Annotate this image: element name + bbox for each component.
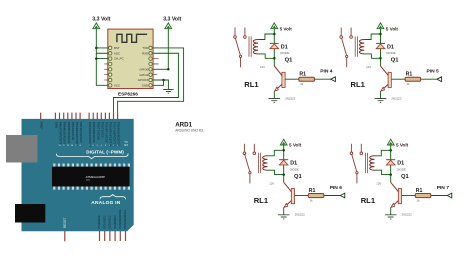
svg-text:AREF: AREF bbox=[40, 122, 44, 130]
svg-text:5: 5 bbox=[97, 145, 98, 147]
svg-text:VCC: VCC bbox=[114, 83, 120, 87]
svg-text:PB2/SS/OC1B: PB2/SS/OC1B bbox=[71, 122, 75, 140]
svg-text:GND: GND bbox=[142, 83, 148, 87]
svg-text:PD5/T1/OC0B: PD5/T1/OC0B bbox=[96, 122, 100, 140]
svg-text:PD4/T0/XCK: PD4/T0/XCK bbox=[100, 122, 104, 138]
svg-text:0: 0 bbox=[117, 145, 118, 147]
svg-text:GPIO0: GPIO0 bbox=[139, 67, 148, 71]
svg-text:8: 8 bbox=[80, 145, 81, 147]
svg-text:PC2/ADC2: PC2/ADC2 bbox=[108, 215, 112, 229]
svg-text:PIN 5: PIN 5 bbox=[427, 69, 440, 75]
svg-text:PD2/INT0/PCINT18: PD2/INT0/PCINT18 bbox=[108, 122, 112, 147]
svg-text:9: 9 bbox=[75, 145, 76, 147]
svg-text:PIN 7: PIN 7 bbox=[437, 185, 450, 191]
svg-text:10: 10 bbox=[71, 145, 73, 147]
svg-text:PB1/OC1A/PCINT1: PB1/OC1A/PCINT1 bbox=[75, 122, 79, 147]
svg-text:2: 2 bbox=[109, 145, 110, 147]
svg-text:3: 3 bbox=[105, 145, 106, 147]
svg-text:RESET: RESET bbox=[63, 217, 67, 228]
svg-text:3,3 Volt: 3,3 Volt bbox=[163, 17, 181, 23]
svg-text:PD0/RXD/PCINT16: PD0/RXD/PCINT16 bbox=[117, 122, 121, 147]
svg-text:GND: GND bbox=[54, 122, 58, 128]
svg-text:3,3 Volt: 3,3 Volt bbox=[92, 17, 110, 23]
svg-text:PC3/ADC3: PC3/ADC3 bbox=[113, 215, 117, 229]
svg-text:11: 11 bbox=[67, 145, 69, 147]
svg-text:PB5/SCK/PCINT5: PB5/SCK/PCINT5 bbox=[59, 122, 63, 145]
svg-text:4: 4 bbox=[101, 145, 102, 147]
svg-text:PD3/INT1/OC2B: PD3/INT1/OC2B bbox=[104, 122, 108, 143]
svg-text:PB0/ICP1/CLKO: PB0/ICP1/CLKO bbox=[79, 122, 83, 143]
svg-text:PC5/ADC5/SCL: PC5/ADC5/SCL bbox=[123, 209, 127, 229]
svg-text:PD7/AIN1/PCINT23: PD7/AIN1/PCINT23 bbox=[88, 122, 92, 147]
svg-text:RST: RST bbox=[114, 46, 120, 50]
svg-text:PB3/MOSI/OC2A: PB3/MOSI/OC2A bbox=[67, 122, 71, 144]
svg-text:DIGITAL (~PWM): DIGITAL (~PWM) bbox=[86, 149, 124, 154]
svg-text:PIN 4: PIN 4 bbox=[320, 69, 333, 75]
svg-text:RX: RX bbox=[124, 143, 128, 147]
svg-text:PIN 6: PIN 6 bbox=[330, 185, 343, 191]
svg-text:TXD: TXD bbox=[142, 46, 148, 50]
svg-text:ADC: ADC bbox=[114, 51, 120, 55]
svg-text:12: 12 bbox=[63, 145, 65, 147]
svg-text:13: 13 bbox=[58, 145, 60, 147]
svg-text:CH_PC: CH_PC bbox=[114, 57, 124, 61]
svg-text:GPIO15: GPIO15 bbox=[138, 78, 149, 82]
svg-text:ESP8266: ESP8266 bbox=[118, 91, 138, 96]
svg-text:ANALOG IN: ANALOG IN bbox=[91, 200, 120, 206]
svg-text:ARDUINO UNO R3: ARDUINO UNO R3 bbox=[175, 128, 203, 132]
svg-text:PD1/TXD/PCINT17: PD1/TXD/PCINT17 bbox=[113, 122, 117, 147]
svg-text:PC0/ADC0: PC0/ADC0 bbox=[97, 215, 101, 229]
svg-text:PC1/ADC1: PC1/ADC1 bbox=[102, 215, 106, 229]
svg-text:6: 6 bbox=[93, 145, 94, 147]
svg-text:GPIO2: GPIO2 bbox=[139, 73, 148, 77]
svg-text:RXD: RXD bbox=[142, 51, 148, 55]
svg-text:ATMEGA328P: ATMEGA328P bbox=[86, 175, 105, 179]
svg-text:1121: 1121 bbox=[86, 180, 90, 182]
svg-text:PB4/MISO/PCINT4: PB4/MISO/PCINT4 bbox=[63, 122, 67, 146]
svg-text:7: 7 bbox=[89, 145, 90, 147]
svg-text:1: 1 bbox=[113, 145, 114, 147]
svg-text:PD6/AIN0/OC0A: PD6/AIN0/OC0A bbox=[92, 122, 96, 143]
svg-text:PC4/ADC4/SDA: PC4/ADC4/SDA bbox=[118, 209, 122, 229]
